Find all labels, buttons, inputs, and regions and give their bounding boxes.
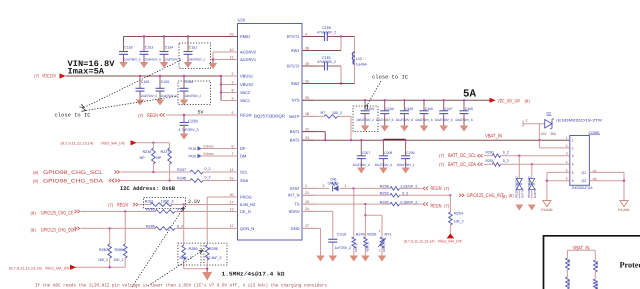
svg-text:100K_2: 100K_2 [161, 200, 174, 204]
junction VBAT rail C209 [404, 139, 406, 141]
ground below C167 [439, 126, 448, 132]
wire PROG [207, 196, 225, 198]
capacitor C209 [397, 140, 415, 167]
test point TP19 [188, 145, 226, 151]
wire SW node vertical [354, 37, 356, 84]
pin 5 REGN [226, 111, 252, 118]
wire branch VAC1 [221, 100, 226, 102]
svg-text:VREG_S4A_1P8: VREG_S4A_1P8 [438, 239, 462, 243]
capacitor C152 [119, 37, 141, 63]
pin G1 COM6 [582, 169, 598, 175]
svg-text:(8): (8) [31, 211, 37, 216]
svg-text:GPIO125_CHG_CE: GPIO125_CHG_CE [41, 211, 73, 217]
wire R289 to R296 bottom tie [184, 268, 208, 270]
svg-text:18: 18 [305, 112, 309, 116]
net connector chevron REGN [160, 113, 165, 116]
wire QON_N [81, 227, 156, 229]
svg-text:REGN: REGN [147, 113, 158, 119]
ground below C207 [357, 168, 366, 174]
svg-text:27: 27 [305, 224, 309, 228]
svg-text:QON_N: QON_N [240, 226, 254, 231]
svg-text:17: 17 [230, 200, 234, 204]
svg-text:VREG_S4A_1P8: VREG_S4A_1P8 [101, 142, 125, 146]
wire G1 [589, 171, 624, 173]
pin 27 GND [291, 224, 314, 231]
annotation VIN=16.8V Imax=5A [68, 59, 116, 77]
resistor R286 [146, 224, 183, 230]
capacitor C208 [375, 140, 393, 167]
svg-text:R245: R245 [356, 232, 365, 236]
wire pulldown rail to VREG_S4A_1P8 [76, 266, 125, 268]
resistor R292 [380, 191, 409, 197]
wire SDA [121, 180, 191, 182]
ground below R296 [206, 269, 208, 272]
svg-text:JHD501LF-6A: JHD501LF-6A [572, 186, 594, 190]
wire BTST2 [302, 65, 315, 67]
pin 19 BTST2 [287, 62, 314, 69]
svg-text:REGN: REGN [117, 203, 128, 209]
svg-text:10uF/50V_6: 10uF/50V_6 [124, 57, 141, 61]
svg-text:3: 3 [572, 154, 574, 158]
wire ACDRV2 to ACDRV1 tie [213, 51, 226, 53]
ground PGND right [620, 201, 628, 207]
svg-text:10uF/50V_6: 10uF/50V_6 [375, 163, 393, 167]
pin 6 COM6 [566, 177, 574, 183]
svg-text:C210: C210 [337, 233, 346, 237]
svg-text:REGN: REGN [240, 112, 252, 117]
svg-text:(7): (7) [138, 113, 144, 118]
resistor R251 [486, 159, 509, 166]
svg-text:GPIO123_CHG_QON: GPIO123_CHG_QON [41, 228, 76, 234]
svg-text:26: 26 [305, 79, 309, 83]
svg-text:5: 5 [232, 111, 234, 115]
svg-text:I2C Address: 0x6B: I2C Address: 0x6B [120, 186, 176, 192]
svg-text:0_2: 0_2 [402, 191, 408, 195]
svg-text:1: 1 [305, 184, 307, 188]
capacitor C168 [455, 100, 473, 125]
svg-text:R296: R296 [209, 247, 218, 251]
svg-text:1: 1 [572, 139, 574, 143]
svg-text:36A: 36A [550, 132, 557, 136]
resistor R254 [449, 195, 464, 233]
pin 18 BATP [289, 112, 314, 119]
svg-text:PMID: PMID [240, 34, 250, 39]
svg-text:C151: C151 [189, 45, 197, 49]
svg-text:C161: C161 [322, 56, 331, 60]
svg-text:3: 3 [232, 80, 234, 84]
junction BATT SDA TVS [531, 163, 533, 165]
pin 26 SW2 [291, 79, 314, 86]
wire SDRV [302, 210, 333, 212]
net connector chevron BATT SCL [478, 154, 483, 157]
svg-text:28: 28 [305, 46, 309, 50]
wire BATT SCL [484, 155, 492, 157]
pin 24 SDRV [288, 207, 314, 214]
junction on PMID rail at C154 [163, 35, 165, 37]
svg-text:11: 11 [230, 55, 234, 59]
junction 1P8 rail R236 [152, 142, 154, 144]
svg-text:7: 7 [232, 152, 234, 156]
TVS diode D48 on BATT SDA [527, 164, 537, 198]
dotted emphasis box around C156 [178, 81, 211, 105]
resistor R250 [486, 150, 509, 157]
svg-text:GPIO125_CHG_INT: GPIO125_CHG_INT [467, 193, 505, 199]
svg-text:8: 8 [232, 88, 234, 92]
ground below C228 [180, 134, 189, 140]
wire BATT SDA [484, 163, 492, 165]
svg-text:19: 19 [305, 62, 309, 66]
pin 3 COM6 [566, 152, 574, 158]
ground below R256 [361, 256, 370, 262]
svg-text:4: 4 [566, 160, 568, 164]
svg-text:R247: R247 [177, 168, 186, 172]
svg-text:R281: R281 [145, 200, 154, 204]
svg-text:U20: U20 [238, 18, 246, 23]
svg-text:C156: C156 [185, 80, 193, 84]
wire PGND drop right [623, 172, 625, 200]
net GPIO125_CHG_INT label [459, 193, 514, 199]
svg-text:R285: R285 [146, 208, 155, 212]
svg-text:4: 4 [305, 32, 307, 36]
svg-text:100K_2: 100K_2 [179, 256, 192, 260]
capacitor C151 [184, 37, 206, 63]
svg-text:REGN: REGN [431, 203, 442, 209]
power arrow VDC_16V_14V [490, 98, 496, 103]
svg-text:STAT: STAT [290, 186, 300, 191]
svg-text:VDC_16V_14V: VDC_16V_14V [498, 99, 521, 105]
svg-text:47nF/50V_2: 47nF/50V_2 [317, 31, 336, 35]
capacitor C161 [315, 56, 341, 71]
junction PGND tie [546, 180, 548, 182]
net connector chevron REGN-ILIM [133, 203, 138, 206]
svg-text:5.36K/F_2: 5.36K/F_2 [400, 200, 417, 204]
svg-text:C152: C152 [124, 45, 132, 49]
svg-text:NP: NP [156, 156, 162, 160]
net connector chevron QON [75, 227, 80, 230]
svg-text:R250: R250 [486, 150, 494, 154]
net connector chevron BATT SDA [478, 163, 483, 166]
dotted callout to ILIM divider [132, 207, 184, 287]
ground below C210 [329, 256, 338, 262]
capacitor C207 [353, 140, 371, 167]
resistor divider right in Protection block [594, 250, 600, 289]
svg-text:17.4kF_2: 17.4kF_2 [207, 256, 222, 260]
svg-text:10: 10 [230, 48, 234, 52]
svg-text:close to IC: close to IC [372, 74, 408, 80]
wire VBUS rail [66, 75, 221, 77]
pin 3 VBUS2 [226, 80, 254, 87]
wire SYS rail [302, 99, 490, 101]
wire REGN [166, 114, 226, 116]
svg-text:PGND: PGND [541, 208, 553, 212]
wire drop to SW1 [340, 37, 342, 51]
resistor R237 (NP) SDA pull-up [156, 143, 171, 181]
net VDC16V input label [34, 74, 56, 80]
svg-text:RT1: RT1 [385, 232, 392, 236]
svg-text:VAC2: VAC2 [240, 90, 251, 95]
svg-text:TP20: TP20 [188, 155, 196, 159]
ground for ACDRV network [212, 60, 214, 64]
capacitor C167 [435, 100, 453, 125]
svg-text:VREG_S4A_1P8: VREG_S4A_1P8 [45, 267, 69, 271]
power arrow VREG_S4A_1P8 lower [70, 265, 76, 270]
wire VBAT dark overdraw [383, 138, 405, 140]
svg-text:D48 5V: D48 5V [533, 188, 537, 198]
junction SYS rail C165 [403, 99, 405, 101]
svg-text:9: 9 [232, 96, 234, 100]
svg-text:R7: R7 [321, 111, 326, 115]
wire VBUS vertical bus [220, 76, 222, 101]
svg-text:5: 5 [572, 171, 574, 175]
svg-text:PGND: PGND [618, 208, 630, 212]
junction VBAT rail C208 [382, 139, 384, 141]
wire ILIM_HZ [140, 204, 151, 206]
capacitor C165 [396, 100, 414, 125]
capacitor C166 [415, 100, 433, 125]
junction G tie [623, 180, 625, 182]
svg-text:(8,7,9,11,12,13,14): (8,7,9,11,12,13,14) [9, 267, 42, 271]
junction pulldown rail [109, 266, 111, 268]
svg-text:1: 1 [379, 229, 381, 233]
svg-text:ILIM_HZ: ILIM_HZ [240, 202, 256, 207]
svg-text:C165: C165 [405, 107, 413, 111]
junction VBUS rail C155 [159, 75, 161, 77]
resistor divider left in Protection block [566, 250, 571, 289]
svg-text:R256: R256 [367, 232, 376, 236]
ground below R245 [350, 256, 359, 262]
svg-text:Protection: Protection [620, 261, 640, 270]
resistor R282 [380, 200, 418, 206]
junction SYS rail C203 [364, 99, 366, 101]
pin 12 QON_N [226, 224, 255, 231]
op-amp U20 charger IC BQ25703DRQR [238, 18, 303, 241]
junction INT_N pullup [449, 194, 451, 196]
pin 23 BAT2 [290, 136, 314, 143]
svg-text:TS: TS [294, 202, 299, 207]
svg-text:Imax=5A: Imax=5A [68, 67, 106, 77]
junction bottom tie [206, 268, 208, 270]
net connector chevron SDA [109, 179, 114, 182]
capacitor C204 [376, 100, 394, 125]
junction VAC2 branch [220, 91, 222, 93]
svg-text:1uH/6A: 1uH/6A [356, 62, 368, 66]
wire VREG_S4A_1P8 rail [137, 142, 170, 144]
ground below C153 [140, 62, 149, 68]
pin 4 COM6 [566, 160, 574, 166]
svg-text:2: 2 [379, 248, 381, 252]
resistor R285 [146, 208, 183, 214]
svg-text:VBUS2: VBUS2 [240, 82, 254, 87]
svg-text:R287: R287 [99, 248, 108, 252]
svg-text:(8): (8) [509, 193, 515, 198]
resistor R296 [205, 245, 221, 269]
wire STAT [302, 187, 330, 189]
svg-text:BQ25703DRQR: BQ25703DRQR [254, 113, 285, 118]
svg-text:C160: C160 [322, 26, 331, 30]
svg-text:SYS: SYS [291, 98, 299, 103]
dotted emphasis box around R281 [144, 198, 186, 209]
resistor R298 [380, 185, 418, 191]
ground below GND pin [316, 256, 325, 262]
pin 20 PROG [226, 193, 252, 200]
svg-text:If the ADC reads the ILIM_HIZ: If the ADC reads the ILIM_HIZ pin voltag… [35, 283, 327, 289]
pin 2 COM6 [566, 144, 574, 150]
LED D46 GREEN [323, 177, 347, 191]
svg-text:BAT2: BAT2 [290, 138, 300, 143]
ground below C208 [379, 168, 388, 174]
svg-text:(7): (7) [439, 153, 445, 158]
svg-text:VBUS1: VBUS1 [240, 73, 254, 78]
dotted callout to R289 box [148, 250, 203, 286]
wire D2 to VBAT rail [538, 124, 540, 141]
pin 15 SDA [226, 176, 249, 183]
power arrow VREG_S4A_1P8 upper [131, 140, 137, 145]
wire ACDRV1 [211, 59, 226, 61]
svg-text:BTST1: BTST1 [287, 34, 300, 39]
svg-text:INT_N: INT_N [288, 193, 300, 198]
ground below C204 [380, 126, 389, 132]
ground below RT1 [378, 256, 387, 262]
net VDC_16V_14V label [498, 99, 531, 105]
net connector chevron SCL [115, 170, 120, 173]
capacitor C155 [156, 76, 178, 100]
svg-text:BATP: BATP [289, 114, 299, 119]
wire GND pin drop [302, 227, 321, 229]
svg-text:1: 1 [345, 184, 347, 188]
wire COM6 pin5 to PGND [547, 171, 570, 173]
ground below C209 [401, 168, 410, 174]
svg-text:10K_2: 10K_2 [454, 220, 464, 224]
resistor R256 [364, 232, 377, 255]
svg-text:C166: C166 [425, 107, 433, 111]
svg-text:(8): (8) [33, 178, 39, 183]
resistor R245 [352, 232, 365, 255]
svg-text:C204: C204 [386, 107, 394, 111]
pin 13 CE_N [226, 207, 251, 214]
wire C160 to SW node [333, 36, 355, 38]
wire CE_N [81, 211, 156, 213]
svg-text:C154: C154 [165, 45, 173, 49]
svg-text:25: 25 [305, 96, 309, 100]
svg-text:100_2: 100_2 [332, 111, 342, 115]
svg-text:(7): (7) [439, 162, 445, 167]
svg-text:DM: DM [240, 153, 246, 158]
pin 10 ACDRV2 [226, 48, 257, 55]
net REGN label left [138, 113, 158, 119]
wire drop to SW2 [340, 66, 342, 84]
resistor R287 [98, 228, 112, 267]
svg-text:0_2: 0_2 [205, 176, 211, 180]
svg-text:SCL: SCL [240, 169, 249, 174]
net GPIO98_CHG_SCL label [33, 170, 103, 176]
svg-text:ACDRV2: ACDRV2 [240, 49, 257, 54]
svg-text:PESD5V0S2UQ: PESD5V0S2UQ [515, 176, 519, 198]
svg-text:CE_N: CE_N [240, 209, 251, 214]
svg-text:0_2: 0_2 [503, 159, 509, 163]
power arrow VDC16V [60, 73, 66, 78]
svg-text:ACDRV1: ACDRV1 [240, 57, 257, 62]
capacitor C159 [136, 76, 158, 100]
pin 9 VAC1 [226, 96, 251, 103]
pin 5 COM6 [566, 168, 574, 174]
ground below C165 [400, 126, 409, 132]
wire SCL [121, 171, 191, 173]
svg-text:R301: R301 [567, 258, 571, 266]
svg-text:BTST2: BTST2 [287, 63, 300, 68]
svg-text:R288: R288 [115, 248, 124, 252]
inductor L12 [352, 52, 367, 66]
svg-text:15: 15 [230, 176, 234, 180]
resistor R236 (NP) SCL pull-up [140, 143, 156, 172]
pin 16 TS [294, 200, 314, 207]
dotted callout line to C156 box [86, 96, 178, 111]
resistor R288 [114, 212, 128, 268]
wire RT1 branch [365, 214, 382, 216]
svg-text:10uF/50V_6: 10uF/50V_6 [353, 163, 371, 167]
pin 1 COM6 [566, 136, 574, 142]
svg-text:(7): (7) [108, 203, 114, 208]
svg-text:0_2: 0_2 [503, 150, 509, 154]
ground below D47 [515, 205, 523, 211]
net connector chevron CE [75, 210, 80, 213]
svg-text:2: 2 [526, 119, 528, 123]
net GPIO125_CHG_CE label [31, 211, 74, 217]
svg-text:20: 20 [230, 193, 234, 197]
pin 2 VBUS1 [226, 72, 254, 79]
svg-text:100nF/50V_2: 100nF/50V_2 [356, 118, 374, 122]
svg-text:(8,7,9,11,12,13,14): (8,7,9,11,12,13,14) [404, 239, 435, 243]
pin 17 ILIM_HZ [226, 200, 256, 207]
svg-text:29: 29 [230, 32, 234, 36]
svg-text:NP: NP [140, 156, 146, 160]
junction VBUS bus top [220, 75, 222, 77]
net BATT_I2C_SDA label [439, 162, 476, 168]
junction SCL pullup [152, 171, 154, 173]
junction VBUS2 branch [220, 83, 222, 85]
TVS diode D47 on BATT SCL [515, 156, 525, 199]
junction TS divider [364, 203, 366, 205]
svg-text:47nF/50V_2: 47nF/50V_2 [317, 60, 336, 64]
svg-text:GREEN: GREEN [328, 181, 339, 185]
svg-text:100K_NTC: 100K_NTC [382, 236, 386, 252]
svg-text:16V: 16V [541, 132, 548, 136]
junction ACDRV tie [212, 58, 214, 60]
wire G2 [589, 180, 624, 182]
net GPIO98_CHG_SDA label [33, 178, 104, 184]
ground below C166 [420, 126, 429, 132]
net BATT_I2C_SCL label [439, 153, 476, 159]
capacitor C203 [356, 100, 374, 125]
wire VBAT rail [302, 139, 570, 141]
svg-text:10uF/50V_6: 10uF/50V_6 [145, 57, 162, 61]
dotted emphasis box around C151 [179, 43, 211, 69]
svg-text:C228: C228 [188, 118, 198, 123]
ground PGND left [543, 201, 551, 207]
svg-text:SDA: SDA [240, 178, 249, 183]
svg-text:G2: G2 [582, 179, 587, 183]
svg-text:0_2: 0_2 [205, 167, 211, 171]
ground below C155 [156, 100, 165, 106]
wire SW2 [302, 83, 355, 85]
svg-text:REGN: REGN [431, 186, 442, 192]
svg-text:R248: R248 [177, 177, 186, 181]
wire BATP [302, 115, 324, 117]
svg-text:4.7uF/25V_3: 4.7uF/25V_3 [179, 128, 199, 132]
svg-text:C203: C203 [366, 107, 374, 111]
net VREG_S4A_1P8 pullup label [404, 239, 462, 243]
ground below C152 [119, 62, 128, 68]
capacitor C153 [140, 37, 162, 63]
